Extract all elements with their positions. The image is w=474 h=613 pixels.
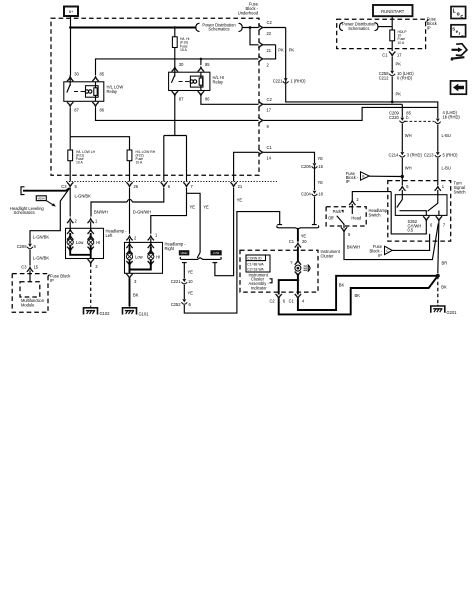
svg-text:21: 21 (267, 48, 272, 53)
wire L-BU to TS pin1 (438, 158, 451, 185)
svg-text:BN/WH: BN/WH (94, 210, 108, 215)
wire YE C1/14 chain down (315, 156, 324, 190)
connector C213 5 RHD (424, 152, 458, 157)
connector C206 pin 15 (301, 163, 324, 169)
node B+ bus junction (69, 26, 72, 29)
svg-text:Low: Low (76, 240, 84, 245)
connector C2 pin 22 (259, 20, 286, 36)
svg-text:0 (RHD): 0 (RHD) (397, 76, 413, 81)
wire PK to C258 (392, 57, 401, 71)
headlamp switch arm (337, 216, 344, 229)
node branch to pin21 (249, 26, 252, 29)
svg-text:7: 7 (191, 184, 194, 189)
indicator pickup contact left (277, 222, 282, 225)
svg-text:PK: PK (278, 48, 284, 53)
svg-text:PK: PK (396, 62, 402, 67)
svg-text:C220: C220 (389, 115, 400, 120)
svg-text:C2: C2 (267, 97, 273, 102)
fuse HDLP 10A (IP) (390, 30, 407, 45)
svg-text:C221: C221 (171, 279, 182, 284)
relay H/L HI (169, 62, 224, 102)
svg-text:9: 9 (291, 261, 293, 265)
svg-text:BR: BR (442, 261, 448, 266)
dimmer contact high side (213, 188, 243, 276)
svg-text:Underhood: Underhood (238, 10, 259, 15)
wire RUN/START down to fuse (391, 16, 393, 30)
svg-text:HIGH: HIGH (181, 251, 188, 255)
svg-text:17: 17 (267, 108, 272, 113)
connector C1 pin 20 cluster (289, 239, 308, 263)
headlamp right box (125, 236, 187, 274)
svg-text:3 (RHD): 3 (RHD) (407, 152, 423, 157)
svg-text:D-GN/WH: D-GN/WH (133, 210, 151, 215)
svg-text:86: 86 (205, 97, 210, 102)
connector C3 pin 26 (126, 182, 138, 189)
svg-text:5: 5 (348, 232, 351, 237)
wire YE to C252 (184, 285, 193, 299)
multifunction module dashed box (20, 282, 45, 308)
svg-text:c: c (460, 14, 463, 20)
connector headlamp left pin 3 (88, 259, 99, 269)
svg-text:26: 26 (134, 184, 139, 189)
svg-text:G101: G101 (139, 312, 150, 317)
svg-text:7: 7 (443, 223, 446, 228)
svg-text:C204: C204 (301, 191, 312, 196)
svg-text:1 (RHD): 1 (RHD) (291, 79, 307, 84)
wire fuse LH to C3 pin5 (69, 161, 71, 182)
high beam indicator lamp (291, 260, 311, 275)
svg-text:0.5: 0.5 (408, 228, 414, 233)
label instrument cluster assembly (249, 272, 273, 290)
connector C3 pin 15 (21, 265, 39, 282)
svg-text:Indicator: Indicator (251, 286, 267, 291)
connector C209 pin 9 (17, 244, 37, 249)
svg-text:Schematics: Schematics (14, 210, 35, 215)
svg-text:2: 2 (356, 197, 359, 202)
svg-text:1: 1 (95, 219, 98, 224)
svg-text:BK: BK (133, 293, 139, 298)
label Fuse Block - Underhood (238, 2, 259, 16)
svg-text:L-GN/BK: L-GN/BK (33, 256, 50, 261)
svg-text:YE: YE (237, 198, 243, 203)
svg-text:YE: YE (190, 205, 196, 210)
svg-text:14: 14 (267, 156, 272, 161)
connector C1 pin 14 (259, 145, 315, 163)
svg-text:1: 1 (155, 233, 158, 238)
fuse H/L HI 15A (172, 37, 189, 52)
svg-text:15: 15 (318, 164, 323, 169)
connector C2 pin 21 (259, 42, 276, 54)
node fuse HI tap (173, 26, 176, 29)
driver B fuse block IP (346, 171, 403, 184)
label Fuse Block IP top right (427, 17, 438, 31)
svg-text:Head: Head (351, 215, 362, 220)
wire YE C3/7 split (151, 188, 209, 253)
wire WH to node (402, 158, 411, 177)
node coil bus tee (200, 58, 203, 61)
svg-text:3: 3 (95, 264, 98, 269)
connector C258 C212 (379, 71, 415, 81)
wire PK C258 down to bus (392, 77, 401, 102)
svg-text:3: 3 (134, 279, 137, 284)
wire fuse bus (70, 137, 129, 150)
svg-text:Park: Park (333, 209, 342, 214)
svg-text:5: 5 (406, 184, 409, 189)
wire WH node into TS pin5 (401, 177, 403, 186)
connector C3 dotted line (66, 181, 277, 183)
svg-text:17: 17 (397, 53, 402, 58)
wire RHD dashed jumper (405, 120, 435, 122)
svg-text:G201: G201 (447, 310, 458, 315)
wire fuse to C1 pin17 (391, 41, 393, 51)
wire indicator to cluster pins (279, 274, 298, 295)
fuse block IP dashed box (left) (12, 274, 71, 313)
svg-text:C1=88 WA: C1=88 WA (247, 262, 264, 266)
connector C252 pin 6 (171, 299, 192, 307)
dimmer common bar (180, 257, 221, 259)
svg-text:87: 87 (179, 97, 184, 102)
svg-text:L-BU: L-BU (442, 166, 451, 171)
wire LOW 87 to fuse bus (69, 108, 71, 137)
svg-text:Module: Module (21, 302, 35, 307)
connector cluster C1 pin 8 (289, 294, 305, 303)
driver C fuse block IP (369, 234, 429, 258)
svg-text:VE04: VE04 (37, 196, 44, 200)
svg-text:IP: IP (378, 253, 382, 258)
fuse block IP dashed box (337, 19, 426, 48)
connector headlamp right pin 3 (126, 274, 137, 284)
svg-text:IP: IP (427, 25, 431, 30)
TS pin 5 (399, 184, 409, 195)
splice S352 net (391, 192, 426, 234)
wire fuse HI to relay HI pin30 (174, 48, 176, 66)
svg-text:C209: C209 (17, 244, 28, 249)
icon back arrow box (451, 81, 467, 94)
connector C2 pin 2 (250, 56, 270, 68)
power distribution schematics reference (IP) (340, 22, 379, 31)
TS pin 6 (423, 216, 433, 227)
svg-text:L-GN/BK: L-GN/BK (33, 235, 50, 240)
svg-text:b: b (406, 115, 409, 120)
svg-text:G102: G102 (100, 311, 111, 316)
wire L-GN/BK C3/5 down to headlamp left (70, 188, 91, 217)
wire BK cluster C2/6 return (279, 276, 438, 315)
headlamp switch dashed box (326, 207, 388, 226)
dimmer switch arm (197, 253, 200, 259)
label headlight leveling schematics (10, 206, 44, 215)
svg-text:BK: BK (441, 285, 447, 290)
svg-text:BK: BK (355, 293, 361, 298)
wire L-GN/BK to C3 pin15 (30, 250, 49, 266)
wire BK to G101 (130, 278, 139, 306)
svg-text:C221: C221 (273, 79, 284, 84)
svg-text:Relay: Relay (107, 89, 118, 94)
svg-text:C2: C2 (269, 298, 275, 303)
svg-text:10 A: 10 A (76, 161, 84, 165)
connector cluster C2 pin 6 (269, 294, 285, 303)
wire BK cluster C1/8 return (298, 276, 438, 310)
wire dashed to G102 (90, 264, 92, 307)
connector C3 pin 5 (61, 182, 77, 189)
dimmer contact low side (182, 263, 193, 279)
svg-text:Right: Right (165, 246, 175, 251)
icon Loc box (451, 7, 466, 21)
svg-text:5 (RHD): 5 (RHD) (443, 152, 459, 157)
wire dashed BK to G201 (438, 276, 447, 305)
wire L-GN/BK pin5 branch to C209 (30, 188, 70, 244)
wire HI relay 85 drop (200, 59, 202, 65)
svg-text:BK: BK (339, 283, 345, 288)
wire bracket to C2 pin22 (242, 27, 258, 29)
svg-text:C3: C3 (21, 265, 27, 270)
ground G102 (84, 307, 111, 317)
svg-text:30: 30 (74, 72, 79, 77)
TS pin 1 (435, 184, 445, 195)
svg-text:Schematics: Schematics (208, 27, 229, 32)
svg-text:C213: C213 (424, 152, 435, 157)
svg-text:6: 6 (430, 223, 433, 228)
svg-text:1b (RHD): 1b (RHD) (443, 115, 461, 120)
connector C2 pin 17 (259, 97, 403, 113)
icon Serv box (451, 25, 466, 39)
wire HI 87 split to C3 pins 6 and 7 (164, 94, 187, 182)
svg-text:C1: C1 (382, 53, 388, 58)
svg-text:15: 15 (34, 265, 39, 270)
connector headlamp switch pin 5 (341, 227, 351, 237)
TS pin 7 (436, 216, 446, 227)
svg-text:2: 2 (134, 236, 137, 241)
wire reference to run/start feed (378, 26, 392, 28)
svg-text:C1: C1 (289, 298, 295, 303)
svg-text:LOW: LOW (213, 251, 220, 255)
dimmer position LOW (211, 250, 222, 255)
svg-text:Switch: Switch (454, 190, 467, 195)
connector C1 pin 17 (IP) (382, 52, 402, 58)
wire BK/WH to TS pin7 (344, 224, 438, 260)
svg-text:6: 6 (189, 302, 192, 307)
wire D-GN/WH C3/26 to headlamp right (130, 188, 152, 234)
svg-text:Schematics: Schematics (348, 26, 369, 31)
connector C3 pin 6 (161, 182, 171, 189)
svg-text:IP: IP (346, 179, 350, 184)
svg-text:HI: HI (156, 254, 160, 259)
svg-text:4: 4 (302, 298, 305, 303)
node indicator branch (297, 279, 300, 282)
svg-text:6: 6 (283, 298, 286, 303)
connector C2 pin 9 (259, 107, 438, 128)
battery feed B+ box (64, 7, 78, 17)
ground G101 (123, 307, 150, 317)
svg-text:YE: YE (188, 291, 194, 296)
wire B+ bus to bracket (71, 27, 197, 29)
RUN/START box (373, 5, 413, 16)
wire bus to fuse H/L HI (174, 28, 176, 37)
svg-text:HI: HI (96, 240, 100, 245)
connector C221 pin 10 (171, 279, 194, 284)
wire HI 86 to C2 pin17 (201, 94, 259, 105)
svg-text:Switch: Switch (369, 213, 382, 218)
svg-text:o: o (457, 11, 460, 17)
turn signal switch dashed box (388, 181, 466, 242)
connector C3 pin 21 (230, 182, 242, 189)
svg-text:Left: Left (106, 233, 114, 238)
svg-text:C1: C1 (289, 239, 295, 244)
svg-text:Off: Off (328, 215, 334, 220)
svg-text:PK: PK (289, 48, 295, 53)
svg-text:YE: YE (318, 180, 324, 185)
wire YE C204 to pickup contact right (315, 180, 324, 222)
svg-text:YE: YE (318, 156, 324, 161)
svg-text:Relay: Relay (213, 79, 224, 84)
indicator pickup common bar (277, 225, 319, 228)
svg-text:6: 6 (168, 184, 171, 189)
svg-text:9: 9 (267, 124, 270, 129)
wire C252 loop to indicator contact (184, 212, 279, 314)
wire BR TS pin7 to ground node (438, 221, 447, 274)
connector C204 pin 18 (301, 191, 324, 197)
relay H/L LOW (64, 72, 124, 113)
svg-text:IP: IP (50, 278, 54, 283)
node ground junction (436, 274, 440, 278)
svg-text:86: 86 (100, 108, 105, 113)
svg-text:C1: C1 (267, 145, 273, 150)
wire WH to C214 (402, 123, 411, 151)
svg-text:2: 2 (75, 219, 78, 224)
svg-text:C3: C3 (61, 184, 67, 189)
wire L-BU to C213 (438, 124, 451, 151)
node PK junction (391, 101, 394, 104)
svg-text:87: 87 (74, 108, 79, 113)
wire B+ to relay LOW pin 30 (70, 28, 72, 76)
svg-text:WH: WH (405, 166, 412, 171)
power distribution schematics reference (top left) (196, 22, 242, 31)
svg-text:C2=18 WA: C2=18 WA (247, 267, 264, 271)
connector C214 3 RHD (389, 152, 423, 157)
instrument cluster dashed box (240, 249, 341, 292)
node WH junction (401, 175, 404, 178)
dimmer position HIGH (179, 250, 190, 255)
reference label VE04 with arrow (36, 196, 56, 207)
wire fuse RH to C3 pin26 (129, 161, 131, 182)
svg-text:Low: Low (135, 254, 143, 259)
svg-text:C212: C212 (379, 76, 390, 81)
svg-text:85: 85 (100, 72, 105, 77)
svg-text:21: 21 (238, 184, 243, 189)
fuse block underhood dashed box (51, 18, 259, 175)
TS switch internals (397, 195, 439, 216)
connector C3 pin 7 (183, 182, 193, 189)
wire YE pickup to C1/20 (298, 229, 307, 242)
headlamp switch head contact to pin2 (349, 192, 391, 214)
svg-text:WH: WH (405, 133, 412, 138)
connector 4 LHD 1b RHD (435, 110, 461, 124)
svg-text:10: 10 (188, 279, 193, 284)
wire C2/17 corner down to C209/C220 (401, 104, 403, 117)
ground G201 (431, 305, 457, 315)
svg-text:1: 1 (442, 184, 445, 189)
svg-text:L: L (453, 9, 456, 15)
svg-text:C252: C252 (171, 302, 182, 307)
wire branch down to C2 pin21 (250, 28, 259, 45)
svg-text:C214: C214 (389, 152, 400, 157)
wire PK jumper pin21 to pin2 (264, 45, 285, 59)
svg-text:C206: C206 (301, 164, 312, 169)
connector C221 pin 1 (273, 78, 306, 83)
indicator pickup contact right (312, 222, 317, 225)
fuse H/L LOW LH 10A (68, 137, 96, 165)
wire B+ down (70, 16, 72, 28)
svg-text:C2: C2 (267, 20, 273, 25)
svg-text:2: 2 (267, 62, 270, 67)
svg-text:c: c (461, 33, 464, 38)
headlamp left box (66, 219, 128, 259)
svg-text:85: 85 (205, 62, 210, 67)
svg-text:10 A: 10 A (136, 161, 144, 165)
svg-text:L-BU: L-BU (442, 133, 451, 138)
svg-text:Cluster: Cluster (321, 253, 335, 258)
svg-text:20: 20 (302, 239, 307, 244)
svg-text:PK: PK (396, 92, 402, 97)
wire C1 pin14 internal from C3 pin21 (234, 152, 259, 181)
svg-text:RUN/START: RUN/START (381, 9, 405, 14)
wire PK C2/22 bus across (286, 28, 438, 119)
svg-text:YE: YE (301, 234, 307, 239)
svg-text:CONN ID: CONN ID (247, 256, 262, 260)
wire LOW 86 to C2 pin9 (96, 108, 259, 121)
svg-text:9: 9 (34, 244, 37, 249)
svg-text:YE: YE (188, 270, 194, 275)
svg-text:5: 5 (75, 184, 78, 189)
svg-text:BK/WH: BK/WH (347, 245, 360, 250)
svg-text:10 A: 10 A (398, 41, 406, 45)
turn signal switch body (395, 195, 447, 216)
fuse H/L LOW RH 10A (127, 150, 156, 165)
svg-text:B+: B+ (69, 10, 73, 14)
icon jump arrow (452, 44, 467, 60)
conn id table (246, 255, 270, 272)
wire thick ref from C3 pin5 to headlight leveling (21, 187, 70, 195)
svg-text:18: 18 (318, 191, 323, 196)
svg-text:YE: YE (203, 205, 209, 210)
wire BN/WH C3/6 to headlamp left HI (91, 188, 164, 217)
svg-text:22: 22 (267, 31, 272, 36)
connector C209 C220 (389, 111, 412, 123)
svg-text:15 A: 15 A (180, 48, 188, 52)
headlamp switch positions (328, 209, 362, 221)
svg-text:L-GN/BK: L-GN/BK (75, 194, 92, 199)
wire relay coil feed bus (96, 59, 251, 75)
svg-text:30: 30 (179, 62, 184, 67)
